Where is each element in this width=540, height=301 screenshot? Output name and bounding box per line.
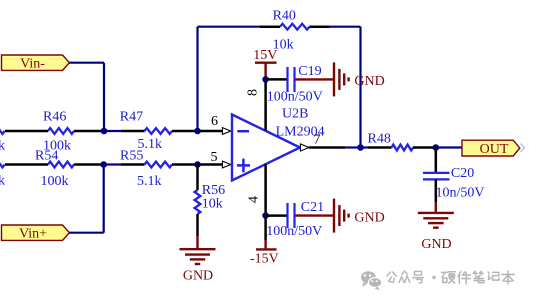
svg-text:R56: R56 [202, 183, 225, 198]
pin 6 arrow [222, 128, 230, 135]
node 15V [262, 76, 269, 83]
node row1-a [101, 128, 108, 135]
node -15V [262, 212, 269, 219]
port Vin+ [2, 225, 70, 240]
svg-text:R40: R40 [273, 8, 296, 23]
pin 7 [309, 146, 345, 149]
wire R56-GND [196, 236, 198, 249]
wire pin7-node [345, 146, 361, 148]
wire R46-junction [74, 130, 104, 133]
pin 8 [264, 79, 267, 130]
resistor R55 [122, 163, 145, 166]
svg-text:R46: R46 [43, 110, 66, 125]
power 15V [255, 62, 277, 64]
svg-text:k: k [0, 139, 5, 154]
svg-text:6: 6 [211, 114, 218, 129]
svg-text:8: 8 [246, 89, 261, 96]
svg-text:GND: GND [421, 237, 451, 252]
svg-text:GND: GND [354, 210, 384, 225]
power -15V [264, 216, 267, 240]
wire R54-junction [74, 163, 104, 166]
node row1-b [194, 128, 201, 135]
svg-text:C21: C21 [301, 200, 324, 215]
ground (R56) [180, 248, 216, 250]
wire Vin- to node [69, 62, 104, 64]
resistor R46 [48, 128, 74, 134]
svg-text:C20: C20 [451, 166, 474, 181]
svg-text:GND: GND [354, 74, 384, 89]
svg-text:R47: R47 [120, 109, 143, 124]
svg-text:OUT: OUT [480, 142, 509, 157]
svg-text:C19: C19 [298, 64, 321, 79]
svg-text:4: 4 [247, 196, 262, 203]
wire node-OUT [436, 146, 463, 148]
capacitor C21 [266, 214, 287, 217]
wire pin6 [198, 130, 223, 133]
ground (C19) [333, 62, 335, 96]
wire feedback-right [359, 27, 361, 148]
wire C20-GND [435, 179, 438, 202]
capacitor C20 [435, 148, 438, 173]
wire feedback-left [196, 27, 198, 131]
wire Vin+ to node [69, 232, 103, 234]
svg-text:10k: 10k [273, 38, 294, 53]
node row2-b [194, 161, 201, 168]
resistor R45 (partial, off-canvas) [0, 128, 5, 134]
svg-text:7: 7 [314, 133, 321, 148]
node out-a [357, 144, 364, 151]
ground (C20) [418, 212, 454, 214]
svg-text:R55: R55 [120, 148, 143, 163]
port OUT [462, 140, 520, 156]
svg-text:100n/50V: 100n/50V [266, 224, 322, 239]
svg-text:5.1k: 5.1k [137, 174, 162, 189]
svg-text:Vin+: Vin+ [19, 227, 47, 242]
wire (row2 left) [5, 163, 48, 166]
svg-text:Vin-: Vin- [20, 57, 45, 72]
node row2-a [100, 161, 107, 168]
op-amp minus [237, 130, 249, 133]
wire node-R47 [104, 130, 123, 132]
resistor R47 [122, 130, 145, 133]
node out-b [433, 144, 440, 151]
resistor R54 [48, 162, 74, 168]
port Vin- [2, 55, 70, 70]
svg-text:R48: R48 [368, 131, 391, 146]
wire C21-GND [296, 214, 335, 216]
svg-text:100k: 100k [41, 174, 69, 189]
watermark wechat logo + text [361, 271, 376, 283]
svg-text:GND: GND [183, 269, 213, 284]
pin 5 arrow [222, 161, 230, 168]
wire node-R55 [104, 163, 123, 165]
op-amp plus [237, 164, 250, 167]
svg-text:R54: R54 [35, 148, 58, 163]
svg-text:-15V: -15V [250, 252, 279, 267]
resistor R53 (partial, off-canvas) [0, 162, 5, 168]
ground (C21) [333, 199, 335, 233]
svg-text:10n/50V: 10n/50V [436, 186, 485, 201]
wire pin5 [198, 163, 223, 166]
resistor R48 [361, 146, 370, 148]
svg-text:k: k [0, 174, 5, 189]
wire C19-GND [296, 78, 335, 80]
op-amp U2B body [232, 115, 300, 181]
wire (row1 left) [5, 130, 48, 133]
wire feedback-top-r [328, 26, 361, 28]
svg-text:U2B: U2B [282, 107, 308, 122]
capacitor C19 [266, 78, 287, 81]
wire feedback-top-l [198, 26, 263, 28]
svg-text:5: 5 [211, 150, 218, 165]
pin 4 [264, 164, 267, 216]
svg-text:10k: 10k [202, 197, 223, 212]
resistor R56 [196, 165, 199, 191]
resistor R40 [260, 25, 280, 28]
svg-text:100n/50V: 100n/50V [267, 90, 323, 105]
